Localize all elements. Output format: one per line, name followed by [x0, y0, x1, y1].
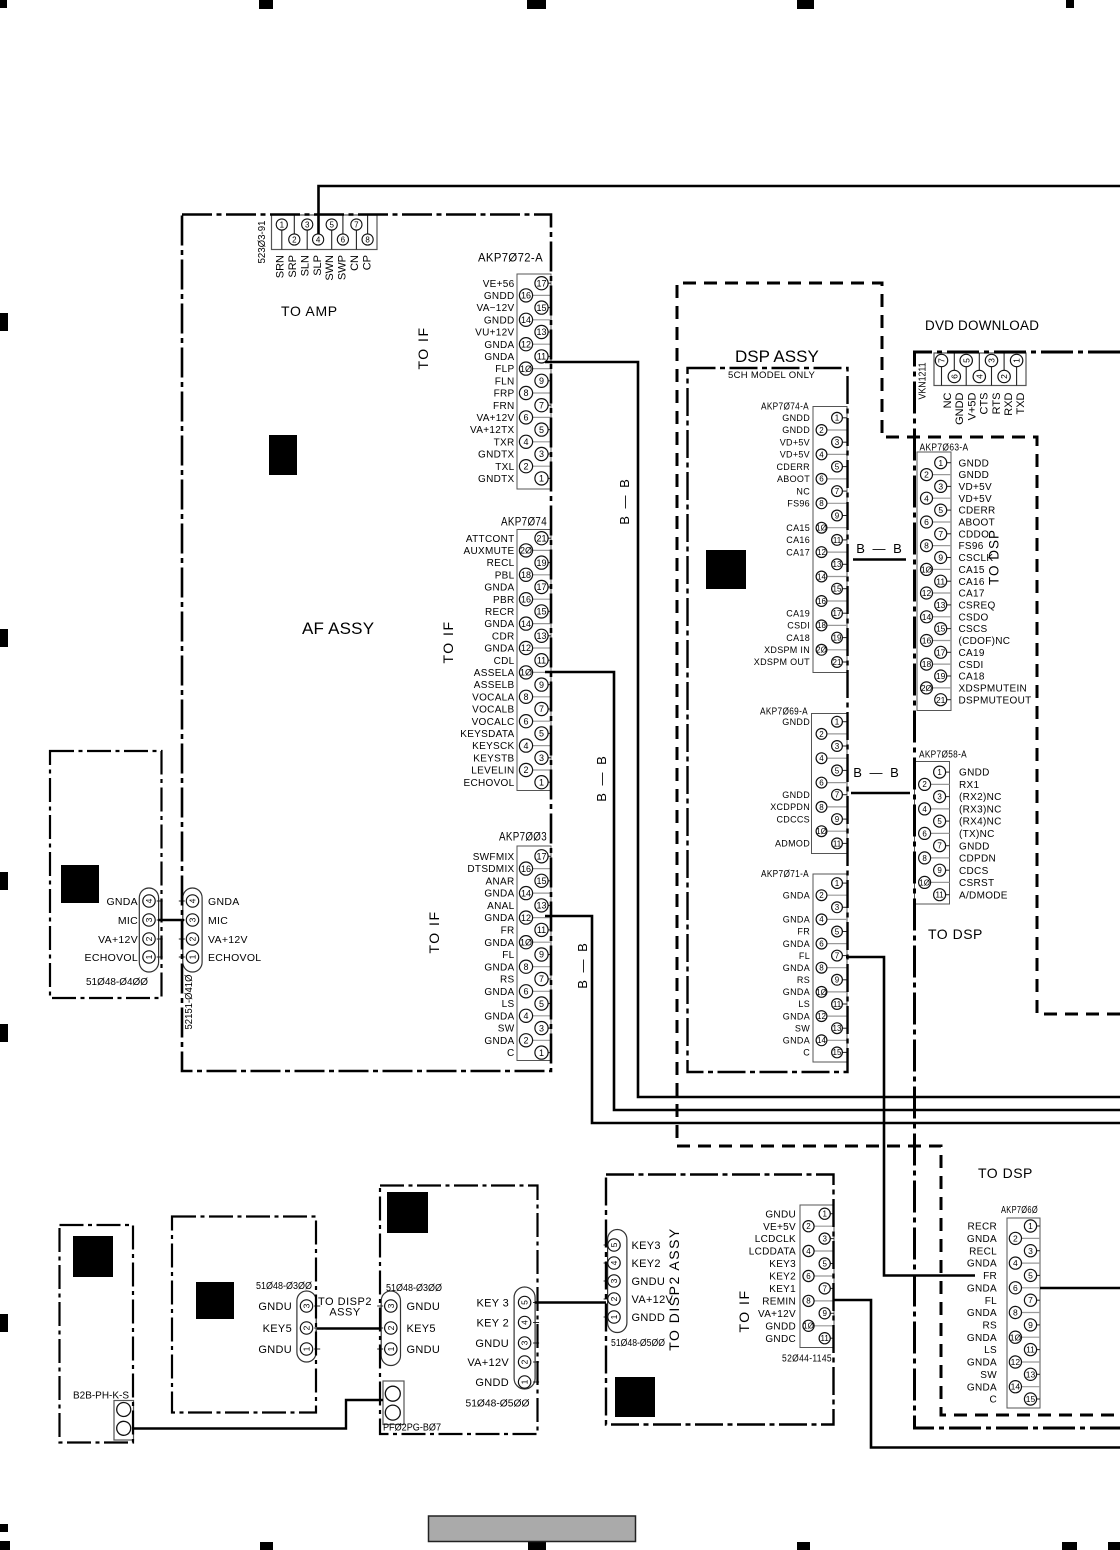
svg-text:AKP7Ø58-A: AKP7Ø58-A	[919, 750, 967, 761]
svg-text:ECHOVOL: ECHOVOL	[208, 952, 261, 964]
svg-text:KEY 3: KEY 3	[477, 1298, 510, 1310]
svg-text:2: 2	[523, 765, 528, 775]
svg-text:3: 3	[609, 1278, 619, 1283]
svg-text:2: 2	[523, 461, 528, 471]
svg-text:XCDPDN: XCDPDN	[770, 802, 810, 812]
svg-text:1: 1	[1012, 358, 1022, 363]
svg-text:14: 14	[817, 572, 826, 581]
DISP2 ASSY box (dash-dot)	[606, 1175, 834, 1425]
svg-text:9: 9	[835, 976, 840, 985]
svg-text:KEY5: KEY5	[407, 1323, 436, 1335]
part number 51048-0400	[86, 976, 148, 988]
connector AKP7074-A (DSP ASSY)	[754, 402, 847, 673]
text AF ASSY	[302, 619, 374, 638]
svg-text:GNDA: GNDA	[783, 987, 810, 997]
svg-text:13: 13	[536, 631, 546, 641]
connector PF02PG-B07	[383, 1381, 404, 1425]
black square (DSP ASSY)	[706, 550, 746, 589]
svg-text:CA16: CA16	[786, 535, 810, 545]
svg-text:CSCS: CSCS	[959, 624, 988, 635]
svg-text:3: 3	[520, 1340, 530, 1345]
svg-text:TO IF: TO IF	[415, 326, 431, 369]
svg-text:AKP7Ø72-A: AKP7Ø72-A	[478, 251, 543, 265]
net label B-B (horizontal, AKP7069 to AKP7058)	[853, 765, 901, 780]
svg-text:2: 2	[144, 936, 154, 941]
svg-text:FL: FL	[799, 951, 810, 961]
svg-text:SW: SW	[498, 1024, 515, 1035]
svg-text:11: 11	[821, 1334, 830, 1343]
svg-text:18: 18	[521, 570, 531, 580]
svg-text:5: 5	[835, 766, 840, 775]
part number 51048-0300 (left)	[256, 1281, 312, 1292]
svg-text:15: 15	[536, 303, 546, 313]
part number 52303-91 (rotated)	[257, 220, 268, 263]
part number 51048-0500 (right unit)	[466, 1398, 530, 1410]
svg-text:15: 15	[536, 607, 546, 617]
svg-text:51Ø48-Ø4ØØ: 51Ø48-Ø4ØØ	[86, 976, 148, 988]
svg-text:16: 16	[922, 636, 932, 646]
svg-text:LCDCLK: LCDCLK	[755, 1234, 796, 1245]
svg-text:GNDA: GNDA	[967, 1259, 997, 1270]
svg-text:17: 17	[536, 582, 546, 592]
svg-text:3: 3	[539, 449, 544, 459]
svg-text:LEVELIN: LEVELIN	[471, 766, 514, 777]
svg-text:6: 6	[819, 939, 824, 948]
svg-text:(RX2)NC: (RX2)NC	[959, 792, 1002, 803]
svg-text:GNDA: GNDA	[484, 1036, 514, 1047]
svg-text:B — B: B — B	[617, 477, 632, 525]
text DVD DOWNLOAD	[925, 318, 1039, 333]
svg-text:XDSPM IN: XDSPM IN	[764, 645, 810, 655]
svg-text:VA+12V: VA+12V	[98, 934, 138, 946]
svg-text:GNDD: GNDD	[782, 790, 810, 800]
svg-text:2Ø: 2Ø	[816, 646, 827, 655]
svg-text:2: 2	[819, 891, 824, 900]
wire AKP7069-A pin7 to AKP7058-A (B-B)	[851, 792, 910, 795]
svg-text:(CDOF)NC: (CDOF)NC	[959, 636, 1011, 647]
svg-text:4: 4	[1013, 1258, 1018, 1268]
svg-text:CSDI: CSDI	[959, 660, 984, 671]
svg-text:18: 18	[922, 659, 932, 669]
svg-text:5: 5	[835, 927, 840, 936]
svg-text:GNDA: GNDA	[484, 619, 514, 630]
svg-text:TXD: TXD	[1015, 392, 1027, 414]
svg-text:GNDA: GNDA	[484, 962, 514, 973]
svg-text:CA19: CA19	[786, 608, 810, 618]
svg-text:VA+12TX: VA+12TX	[470, 425, 514, 436]
wire: 52303-91 pin4 SLP up and to right page edge	[319, 186, 1120, 234]
part number B2B-PH-K-S	[73, 1391, 129, 1402]
right 51048-0300/51048-0500 unit box (dash-dot)	[380, 1186, 538, 1435]
svg-text:13: 13	[536, 901, 546, 911]
svg-text:GNDU: GNDU	[475, 1338, 509, 1350]
svg-text:1: 1	[539, 777, 544, 787]
svg-text:12: 12	[521, 913, 531, 923]
svg-text:7: 7	[539, 704, 544, 714]
wire bus B-B from AKP7003 pin12	[545, 916, 1120, 1123]
svg-text:9: 9	[539, 680, 544, 690]
text TO DSP (above AKP7060)	[978, 1165, 1033, 1181]
svg-text:2: 2	[922, 780, 927, 789]
svg-text:1Ø: 1Ø	[520, 937, 532, 947]
svg-text:1: 1	[835, 718, 840, 727]
svg-text:4: 4	[520, 1320, 530, 1325]
svg-text:2: 2	[1013, 1233, 1018, 1243]
gray legend bar	[429, 1516, 636, 1542]
svg-text:CA17: CA17	[959, 589, 985, 600]
svg-text:5: 5	[539, 729, 544, 739]
svg-text:REMIN: REMIN	[762, 1297, 796, 1308]
svg-text:GNDU: GNDU	[632, 1276, 666, 1288]
wire AKP7060 pin6 GNDA to right page edge	[1040, 1287, 1120, 1290]
DSP ASSY inner box: 5CH MODEL ONLY (dash-dot)	[688, 368, 848, 1072]
svg-text:VKN1211: VKN1211	[918, 362, 929, 399]
svg-text:GNDA: GNDA	[783, 915, 810, 925]
svg-text:VD+5V: VD+5V	[959, 494, 992, 505]
svg-text:12: 12	[817, 1012, 826, 1021]
svg-text:PBL: PBL	[495, 570, 515, 581]
connector 51048-0300 (right unit)	[377, 1291, 440, 1366]
svg-text:1Ø: 1Ø	[1010, 1332, 1022, 1342]
svg-text:3: 3	[1028, 1246, 1033, 1256]
svg-text:4: 4	[924, 493, 929, 503]
svg-text:2: 2	[188, 936, 198, 941]
svg-text:7: 7	[937, 842, 942, 851]
svg-text:FLP: FLP	[495, 364, 514, 375]
svg-text:VA+12V: VA+12V	[208, 934, 248, 946]
svg-text:2: 2	[520, 1359, 530, 1364]
svg-text:8: 8	[922, 854, 927, 863]
svg-text:3: 3	[386, 1303, 396, 1308]
svg-text:12: 12	[817, 548, 826, 557]
svg-text:11: 11	[537, 655, 546, 665]
svg-text:RS: RS	[797, 975, 810, 985]
svg-text:14: 14	[521, 888, 531, 898]
svg-text:TO DISP2 ASSY: TO DISP2 ASSY	[666, 1227, 682, 1351]
svg-text:A/DMODE: A/DMODE	[959, 890, 1008, 901]
connector AKP7058-A (DVD to DSP)	[915, 750, 1008, 905]
svg-text:13: 13	[833, 1024, 842, 1033]
svg-text:11: 11	[833, 839, 842, 848]
svg-text:CA16: CA16	[959, 577, 985, 588]
part number VKN1211 (rotated)	[918, 362, 929, 399]
svg-text:RXD: RXD	[1003, 392, 1015, 415]
svg-text:3: 3	[302, 1303, 312, 1308]
svg-text:CDDO: CDDO	[959, 529, 990, 540]
svg-text:17: 17	[536, 278, 546, 288]
svg-text:ASSELA: ASSELA	[474, 668, 515, 679]
svg-text:8: 8	[523, 692, 528, 702]
svg-text:XDSPM OUT: XDSPM OUT	[754, 657, 810, 667]
svg-text:GNDA: GNDA	[484, 889, 514, 900]
svg-text:11: 11	[1026, 1345, 1035, 1355]
svg-text:51Ø48-Ø5ØØ: 51Ø48-Ø5ØØ	[611, 1338, 665, 1349]
net label B-B (horizontal, DSP to AKP7063)	[856, 541, 904, 556]
svg-text:RTS: RTS	[991, 393, 1003, 415]
svg-text:GNDD: GNDD	[959, 768, 990, 779]
connector AKP7069-A (DSP ASSY)	[760, 707, 847, 854]
svg-text:V+5D: V+5D	[966, 392, 978, 420]
svg-text:7: 7	[835, 952, 840, 961]
text TO DISP2 ASSY (rotated, DISP2 box)	[666, 1227, 682, 1351]
svg-text:GNDTX: GNDTX	[478, 450, 515, 461]
svg-text:KEY3: KEY3	[769, 1259, 796, 1270]
svg-text:ECHOVOL: ECHOVOL	[463, 778, 514, 789]
left 51048-0300 unit box (dash-dot)	[172, 1217, 316, 1413]
svg-text:FRP: FRP	[494, 389, 515, 400]
svg-text:14: 14	[521, 315, 531, 325]
svg-text:(TX)NC: (TX)NC	[959, 829, 995, 840]
svg-text:GNDA: GNDA	[967, 1308, 997, 1319]
svg-text:VD+5V: VD+5V	[780, 438, 810, 448]
svg-text:19: 19	[536, 558, 546, 568]
svg-text:6: 6	[523, 716, 528, 726]
black square (B2B unit)	[73, 1236, 113, 1277]
svg-text:GNDD: GNDD	[782, 413, 810, 423]
svg-text:21: 21	[536, 533, 546, 543]
svg-text:KEY 2: KEY 2	[477, 1318, 510, 1330]
svg-text:523Ø3-91: 523Ø3-91	[257, 220, 268, 263]
svg-text:GNDD: GNDD	[484, 315, 515, 326]
svg-text:CA18: CA18	[786, 633, 810, 643]
svg-text:AKP7ØØ3: AKP7ØØ3	[499, 830, 547, 844]
svg-text:ECHOVOL: ECHOVOL	[85, 952, 138, 964]
svg-text:1: 1	[609, 1314, 619, 1319]
svg-text:15: 15	[536, 876, 546, 886]
svg-text:1: 1	[188, 954, 198, 959]
svg-text:GNDA: GNDA	[783, 1011, 810, 1021]
text TO DISP2 / ASSY (2 lines)	[318, 1296, 372, 1319]
part number 52151-0410 (rotated)	[184, 974, 195, 1029]
connector 51048-0500 (DISP2 ASSY)	[604, 1230, 674, 1333]
svg-text:13: 13	[833, 560, 842, 569]
part number 51048-0500 (DISP2)	[611, 1338, 665, 1349]
svg-text:GNDU: GNDU	[407, 1301, 441, 1313]
svg-text:VOCALC: VOCALC	[472, 717, 515, 728]
svg-text:11: 11	[537, 925, 546, 935]
svg-text:13: 13	[936, 600, 946, 610]
text TO IF (rotated, AKP7072-A)	[415, 326, 431, 369]
svg-text:CSRST: CSRST	[959, 878, 994, 889]
svg-text:SRP: SRP	[287, 255, 299, 278]
svg-text:7: 7	[937, 358, 947, 363]
svg-text:4: 4	[819, 450, 824, 459]
wire stub B-B (DSP to AKP7063)	[853, 558, 906, 561]
text TO IF (rotated, 52044-1145)	[736, 1289, 752, 1332]
svg-text:ANAL: ANAL	[487, 901, 514, 912]
svg-text:TO IF: TO IF	[426, 910, 442, 953]
svg-text:5: 5	[539, 999, 544, 1009]
svg-text:RECL: RECL	[487, 558, 515, 569]
part number 51048-0300 (right)	[386, 1283, 442, 1294]
svg-text:C: C	[989, 1395, 997, 1406]
svg-text:B — B: B — B	[853, 765, 901, 780]
svg-text:AUXMUTE: AUXMUTE	[464, 546, 515, 557]
svg-text:1: 1	[822, 1210, 827, 1219]
text 5CH MODEL ONLY	[728, 370, 815, 381]
svg-text:AKP7Ø71-A: AKP7Ø71-A	[761, 869, 809, 880]
wire bus B-B from AKP7074 pin10 ASSELA	[545, 672, 1120, 1110]
svg-text:3: 3	[539, 753, 544, 763]
svg-text:13: 13	[536, 327, 546, 337]
svg-text:11: 11	[936, 576, 945, 586]
svg-text:16: 16	[817, 597, 826, 606]
net label B-B (rotated, bus wire 1)	[617, 477, 632, 525]
svg-text:GNDU: GNDU	[765, 1209, 796, 1220]
svg-text:8: 8	[806, 1297, 811, 1306]
black square (51048-0400 unit)	[61, 865, 99, 903]
svg-text:4: 4	[523, 1011, 528, 1021]
svg-text:(RX4)NC: (RX4)NC	[959, 817, 1002, 828]
svg-text:KEY5: KEY5	[263, 1323, 292, 1335]
svg-text:FLN: FLN	[495, 376, 515, 387]
svg-text:15: 15	[1026, 1394, 1036, 1404]
svg-text:GNDA: GNDA	[484, 340, 514, 351]
svg-text:CA15: CA15	[959, 565, 985, 576]
svg-text:TO IF: TO IF	[440, 620, 456, 663]
DVD unit dash-dot boundary	[915, 352, 1120, 1428]
svg-text:DVD DOWNLOAD: DVD DOWNLOAD	[925, 318, 1039, 333]
svg-text:5: 5	[822, 1259, 827, 1268]
svg-text:GNDD: GNDD	[954, 392, 966, 424]
svg-text:7: 7	[938, 529, 943, 539]
svg-text:5: 5	[938, 505, 943, 515]
svg-text:2: 2	[999, 374, 1009, 379]
svg-text:B2B-PH-K-S: B2B-PH-K-S	[73, 1391, 129, 1402]
svg-text:C: C	[803, 1048, 810, 1058]
svg-text:4: 4	[974, 374, 984, 379]
wire bus B-B from AKP7072-A pin10 FLP	[545, 362, 1120, 1097]
svg-text:2: 2	[302, 1325, 312, 1330]
svg-text:2: 2	[292, 236, 297, 245]
svg-text:MIC: MIC	[208, 915, 228, 927]
svg-text:4: 4	[188, 898, 198, 903]
svg-text:5: 5	[539, 425, 544, 435]
text TO DSP (rotated, beside AKP7063-A)	[987, 529, 1002, 585]
svg-text:1Ø: 1Ø	[816, 988, 827, 997]
svg-text:12: 12	[922, 588, 932, 598]
DSP ASSY outer dashed boundary	[677, 283, 1120, 1415]
svg-text:8: 8	[819, 499, 824, 508]
svg-text:17: 17	[936, 647, 946, 657]
svg-text:3: 3	[822, 1235, 827, 1244]
svg-text:5: 5	[835, 463, 840, 472]
svg-text:GNDU: GNDU	[258, 1344, 292, 1356]
svg-text:CDCS: CDCS	[959, 866, 989, 877]
svg-text:B — B: B — B	[575, 941, 590, 989]
svg-text:51Ø48-Ø5ØØ: 51Ø48-Ø5ØØ	[466, 1398, 530, 1410]
connector VKN1211 (DVD DOWNLOAD)	[934, 353, 1026, 386]
52303-91 signal labels (rotated)	[275, 255, 374, 281]
black square (AF ASSY)	[269, 435, 297, 475]
svg-text:5: 5	[329, 221, 334, 230]
svg-text:5: 5	[520, 1300, 530, 1305]
svg-text:GNDA: GNDA	[967, 1358, 997, 1369]
svg-text:9: 9	[539, 376, 544, 386]
svg-text:1: 1	[937, 768, 942, 777]
svg-text:RS: RS	[983, 1321, 998, 1332]
svg-text:6: 6	[924, 517, 929, 527]
svg-text:RX1: RX1	[959, 780, 979, 791]
net label B-B (rotated, bus wire 2)	[594, 754, 609, 802]
svg-text:5: 5	[609, 1242, 619, 1247]
svg-text:2: 2	[819, 730, 824, 739]
svg-text:1: 1	[144, 954, 154, 959]
svg-text:1: 1	[386, 1346, 396, 1351]
svg-text:LS: LS	[984, 1345, 997, 1356]
connector 51048-0500 (right unit)	[467, 1287, 539, 1389]
svg-text:GNDA: GNDA	[967, 1234, 997, 1245]
svg-text:SRN: SRN	[275, 255, 287, 278]
svg-text:GNDTX: GNDTX	[478, 474, 515, 485]
connector 52044-1145 (DISP2 to IF)	[749, 1205, 834, 1365]
svg-text:52Ø44-1145: 52Ø44-1145	[782, 1354, 832, 1365]
svg-text:8: 8	[523, 388, 528, 398]
text TO IF (rotated, AKP7003)	[426, 910, 442, 953]
svg-text:KEYSTB: KEYSTB	[473, 753, 514, 764]
svg-text:15: 15	[936, 624, 946, 634]
B2B-PH-K-S unit box (dash-dot)	[60, 1225, 134, 1443]
svg-text:GNDA: GNDA	[484, 938, 514, 949]
svg-text:1: 1	[938, 458, 943, 468]
connector 52151-0410 (AF ASSY MIC input)	[179, 888, 262, 972]
svg-text:SWP: SWP	[337, 255, 349, 280]
svg-text:TO DSP: TO DSP	[978, 1165, 1033, 1181]
svg-text:PFØ2PG-BØ7: PFØ2PG-BØ7	[383, 1423, 441, 1434]
svg-text:4: 4	[609, 1260, 619, 1265]
svg-text:5: 5	[961, 358, 971, 363]
svg-text:3: 3	[188, 917, 198, 922]
svg-text:5: 5	[1028, 1271, 1033, 1281]
svg-text:MIC: MIC	[118, 915, 138, 927]
svg-text:CDL: CDL	[494, 656, 515, 667]
svg-text:CP: CP	[361, 255, 373, 270]
svg-text:1: 1	[835, 414, 840, 423]
svg-text:FL: FL	[985, 1296, 997, 1307]
svg-text:KEY3: KEY3	[632, 1240, 661, 1252]
svg-text:NC: NC	[942, 392, 954, 408]
svg-text:11: 11	[537, 352, 546, 362]
connector AKP7003 (AF ASSY to IF)	[467, 830, 551, 1061]
svg-text:ABOOT: ABOOT	[777, 474, 810, 484]
svg-text:6: 6	[341, 236, 346, 245]
svg-text:VD+5V: VD+5V	[959, 482, 992, 493]
svg-text:SWN: SWN	[324, 255, 336, 281]
svg-text:6: 6	[949, 374, 959, 379]
svg-text:3: 3	[835, 903, 840, 912]
svg-text:11: 11	[833, 1000, 842, 1009]
svg-text:SWFMIX: SWFMIX	[473, 852, 515, 863]
black square (left 51048-0300 unit)	[196, 1282, 234, 1319]
svg-text:GNDA: GNDA	[106, 896, 138, 908]
svg-text:GNDU: GNDU	[407, 1344, 441, 1356]
svg-text:7: 7	[539, 400, 544, 410]
svg-text:CSREQ: CSREQ	[959, 601, 996, 612]
svg-text:7: 7	[1028, 1295, 1033, 1305]
svg-text:VA+12V: VA+12V	[758, 1309, 796, 1320]
svg-text:1: 1	[302, 1346, 312, 1351]
svg-text:GNDD: GNDD	[484, 291, 515, 302]
svg-text:12: 12	[1011, 1357, 1021, 1367]
svg-text:11: 11	[935, 891, 944, 900]
svg-text:2: 2	[609, 1296, 619, 1301]
svg-text:2: 2	[523, 1036, 528, 1046]
svg-text:RECL: RECL	[969, 1246, 997, 1257]
text TO AMP	[281, 303, 338, 319]
svg-text:DSPMUTEOUT: DSPMUTEOUT	[959, 695, 1032, 706]
svg-text:RS: RS	[500, 975, 515, 986]
svg-text:CA19: CA19	[959, 648, 985, 659]
